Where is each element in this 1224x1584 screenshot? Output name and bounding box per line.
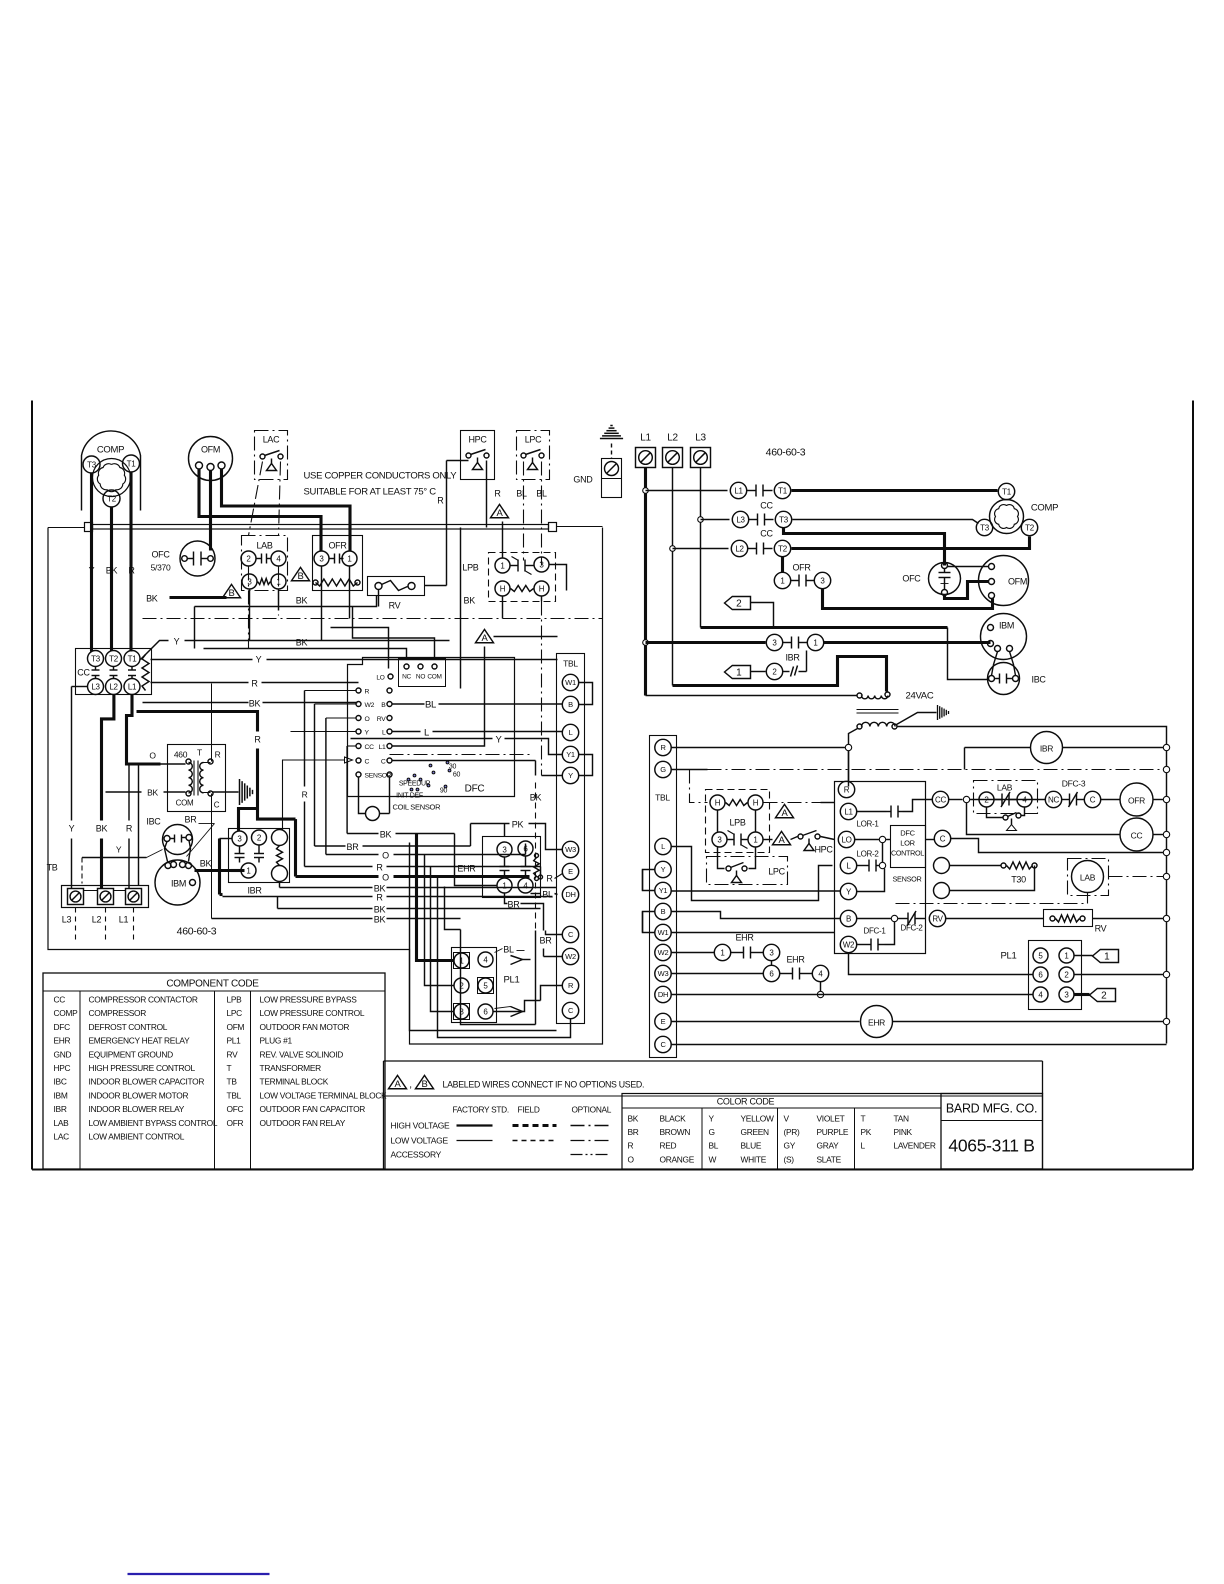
svg-text:LOW PRESSURE CONTROL: LOW PRESSURE CONTROL xyxy=(260,1008,365,1018)
svg-text:IBC: IBC xyxy=(54,1077,67,1087)
OFM motor right xyxy=(979,556,1029,606)
svg-text:BK: BK xyxy=(374,905,386,915)
control Y term xyxy=(840,883,856,899)
svg-text:BARD MFG. CO.: BARD MFG. CO. xyxy=(946,1102,1037,1116)
OFC capacitor right xyxy=(929,563,961,595)
control W2 term xyxy=(840,936,856,952)
COMP T3 right xyxy=(976,519,992,535)
dash-dot horz mid xyxy=(390,754,531,756)
svg-text:DFC-1: DFC-1 xyxy=(863,927,886,936)
svg-text:Y: Y xyxy=(568,771,573,780)
svg-text:R: R xyxy=(844,785,850,794)
svg-text:RV: RV xyxy=(1095,924,1107,934)
wire BL DFC-B to TBL-B xyxy=(393,703,425,705)
svg-text:T2: T2 xyxy=(1025,523,1035,532)
svg-text:T3: T3 xyxy=(779,515,789,524)
wire OFC bot to OFM2 xyxy=(945,582,989,599)
wire LOR2 vert xyxy=(882,843,884,863)
warning triangle B at LAB xyxy=(292,567,310,580)
T30 resistor xyxy=(1001,863,1006,868)
right TBL box xyxy=(650,736,677,1058)
PL1R pin 4 xyxy=(1033,987,1048,1002)
relay coil CC right xyxy=(1120,818,1153,851)
wire secondary left down xyxy=(849,729,858,787)
IBM pin top xyxy=(988,625,994,631)
right LAB box xyxy=(974,781,1038,814)
COMP T1 right xyxy=(998,483,1014,499)
low ambient control LAC box xyxy=(255,431,288,480)
svg-text:T3: T3 xyxy=(980,523,990,532)
svg-text:W2: W2 xyxy=(843,940,855,949)
wire DH row xyxy=(672,994,1033,996)
OFM pins xyxy=(196,462,203,469)
svg-text:BK: BK xyxy=(106,566,118,576)
wire E row xyxy=(672,1021,860,1023)
coil CC right row1 xyxy=(932,791,948,807)
wire band BK3 xyxy=(277,897,279,909)
wire TBL-C bottom xyxy=(570,1018,572,1020)
wire RV right xyxy=(425,585,447,587)
svg-text:TERMINAL BLOCK: TERMINAL BLOCK xyxy=(260,1077,329,1087)
legend high voltage samples xyxy=(457,1124,493,1126)
svg-text:HPC: HPC xyxy=(468,435,487,445)
high voltage bus bar xyxy=(85,523,93,532)
svg-text:OFR: OFR xyxy=(227,1118,244,1128)
wire T3 to COMP xyxy=(793,520,979,524)
wire Y1 row to control xyxy=(672,890,841,892)
svg-text:T2: T2 xyxy=(778,544,788,553)
wire W2 down xyxy=(849,954,894,975)
plug PL1 right box xyxy=(1029,941,1082,1010)
svg-text:OUTDOOR FAN RELAY: OUTDOOR FAN RELAY xyxy=(260,1118,346,1128)
wire LAB1 down xyxy=(278,590,280,611)
CC terminal T1 xyxy=(124,651,140,667)
svg-text:BK: BK xyxy=(464,596,476,606)
svg-text:IBC: IBC xyxy=(1032,675,1047,685)
PL1 pin 3 xyxy=(454,1004,470,1020)
svg-text:BK: BK xyxy=(380,830,392,840)
flag 2 pl1 xyxy=(1075,993,1090,996)
svg-text:L: L xyxy=(424,728,429,739)
svg-text:HIGH PRESSURE CONTROL: HIGH PRESSURE CONTROL xyxy=(89,1063,196,1073)
terminal block TB xyxy=(62,886,149,908)
svg-text:W2: W2 xyxy=(658,948,669,957)
svg-text:COMPONENT CODE: COMPONENT CODE xyxy=(166,979,259,990)
wire BK IBM to IBR xyxy=(195,869,231,872)
svg-text:OUTDOOR FAN CAPACITOR: OUTDOOR FAN CAPACITOR xyxy=(260,1104,366,1114)
wire R vert at 302 xyxy=(304,691,306,787)
TB dashed leads xyxy=(75,908,77,941)
low voltage terminal block TBL box xyxy=(557,654,585,1024)
wire W3 row xyxy=(672,973,764,975)
DFC LOR CONTROL box xyxy=(891,826,926,868)
right LPB box xyxy=(706,790,770,853)
svg-text:DEFROST CONTROL: DEFROST CONTROL xyxy=(89,1022,168,1032)
control B term xyxy=(840,910,856,926)
svg-text:L: L xyxy=(382,729,386,736)
indoor blower capacitor IBC xyxy=(163,825,193,855)
wire C row right xyxy=(672,1044,1167,1046)
svg-text:TBL: TBL xyxy=(227,1090,242,1100)
svg-text:OFC: OFC xyxy=(902,574,921,584)
svg-text:BL: BL xyxy=(503,945,514,955)
contact IBR aux xyxy=(766,663,782,679)
svg-text:RV: RV xyxy=(377,716,386,723)
transformer primary taps xyxy=(186,759,191,764)
svg-text:HPC: HPC xyxy=(54,1063,71,1073)
wire BK upper xyxy=(195,596,377,607)
svg-text:L3: L3 xyxy=(91,682,100,691)
svg-text:H: H xyxy=(500,584,506,593)
svg-text:CC: CC xyxy=(760,501,773,511)
svg-text:C: C xyxy=(940,834,946,843)
svg-text:CONTROL: CONTROL xyxy=(891,849,924,858)
wire LPB drop2 xyxy=(541,597,543,602)
svg-text:LOR: LOR xyxy=(900,839,915,848)
IBM pin small xyxy=(190,880,196,886)
compressor terminal T2 xyxy=(103,490,120,507)
wire BK vertical drop xyxy=(461,930,471,1025)
24V transformer core xyxy=(857,709,899,711)
title block box xyxy=(941,1094,1043,1170)
wire sensor T30 xyxy=(950,865,1002,867)
wire L1 to xfmr xyxy=(646,695,858,697)
svg-text:LO: LO xyxy=(841,835,851,844)
wire band BK1 xyxy=(346,746,348,834)
svg-text:L2: L2 xyxy=(92,915,102,925)
relay coil EHR right xyxy=(861,1006,893,1038)
wire band O2 xyxy=(294,819,297,876)
svg-text:EHR: EHR xyxy=(457,864,476,874)
PL1 pin 6 xyxy=(478,1004,493,1019)
svg-text:A: A xyxy=(782,808,789,819)
PL1R pin 3 xyxy=(1059,987,1074,1002)
transformer T box xyxy=(168,745,226,812)
wire RV left down xyxy=(378,590,380,607)
svg-text:BK: BK xyxy=(200,859,212,869)
svg-text:L1: L1 xyxy=(640,433,651,444)
note triangle A xyxy=(389,1075,407,1088)
IBR terminal 2 xyxy=(252,830,267,845)
component code col dividers xyxy=(79,991,81,1169)
reversing valve RV box xyxy=(368,577,425,596)
contact IBR 3-1 xyxy=(766,634,782,650)
transformer R lead up xyxy=(211,745,213,762)
svg-text:L1: L1 xyxy=(119,915,129,925)
PL1R pin 1 xyxy=(1059,948,1074,963)
indoor blower motor IBM xyxy=(155,860,200,905)
LPB heater zigzag xyxy=(511,586,534,592)
svg-text:460-60-3: 460-60-3 xyxy=(766,447,806,459)
EHR zigzag xyxy=(534,858,540,877)
right LPB 3 xyxy=(712,832,727,847)
svg-text:L2: L2 xyxy=(667,433,678,444)
wire band O1 xyxy=(325,718,327,855)
relay coil OFR right xyxy=(1101,799,1120,801)
svg-text:A: A xyxy=(395,1079,402,1090)
svg-text:R: R xyxy=(302,790,308,800)
wire R from CC coil xyxy=(151,682,249,684)
svg-text:FIELD: FIELD xyxy=(518,1105,540,1115)
svg-text:CC: CC xyxy=(1131,831,1143,841)
svg-text:LAC: LAC xyxy=(263,435,280,445)
LAC switch xyxy=(260,454,265,459)
junction L3 row2 xyxy=(698,517,704,523)
svg-text:GND: GND xyxy=(573,475,593,485)
wire A tri to LPB xyxy=(502,522,504,558)
svg-text:FACTORY STD.: FACTORY STD. xyxy=(453,1105,509,1115)
svg-text:1: 1 xyxy=(1104,952,1110,963)
wire nest 4 xyxy=(431,867,454,1012)
svg-text:5/370: 5/370 xyxy=(151,563,171,573)
RV coil xyxy=(375,583,382,590)
control LO term xyxy=(838,831,854,847)
svg-text:BR: BR xyxy=(185,815,198,825)
svg-text:2: 2 xyxy=(1101,991,1107,1002)
svg-text:COM: COM xyxy=(427,674,441,681)
wire BK to LAB-3 xyxy=(170,596,227,599)
svg-text:Y: Y xyxy=(116,845,122,855)
svg-text:TB: TB xyxy=(227,1077,238,1087)
CC terminal T2 xyxy=(106,651,122,667)
CC terminal L3 xyxy=(88,679,104,695)
compressor COMP scallops xyxy=(97,464,125,492)
svg-text:WHITE: WHITE xyxy=(741,1154,767,1164)
indoor blower relay IBR box xyxy=(229,829,290,883)
svg-text:LPB: LPB xyxy=(462,563,478,573)
svg-text:A: A xyxy=(779,835,786,846)
svg-text:SUITABLE FOR AT LEAST 75° C: SUITABLE FOR AT LEAST 75° C xyxy=(304,487,437,498)
svg-text:DFC: DFC xyxy=(465,784,485,795)
wire A to HPC xyxy=(791,837,798,840)
svg-text:USE COPPER CONDUCTORS ONLY: USE COPPER CONDUCTORS ONLY xyxy=(304,471,458,482)
svg-text:LO: LO xyxy=(376,675,384,682)
wire thick to R drop xyxy=(137,712,258,732)
color code table box xyxy=(622,1094,1043,1170)
svg-text:BLACK: BLACK xyxy=(660,1114,687,1124)
wire W1 row xyxy=(672,932,835,934)
wire Y from CC xyxy=(151,659,253,661)
svg-text:BR: BR xyxy=(508,900,521,910)
PL1 fork top xyxy=(511,956,523,965)
svg-text:TRANSFORMER: TRANSFORMER xyxy=(260,1063,322,1073)
wire band BK4 xyxy=(212,918,373,920)
svg-text:COMP: COMP xyxy=(1031,503,1058,514)
right LPB check contact xyxy=(728,839,735,841)
svg-text:L: L xyxy=(661,842,665,851)
DFC config dots xyxy=(407,778,410,781)
svg-text:EHR: EHR xyxy=(868,1018,885,1028)
LPB check contact xyxy=(511,565,519,567)
svg-text:O: O xyxy=(382,851,389,861)
wire B row to control xyxy=(672,912,841,919)
svg-text:RED: RED xyxy=(660,1141,677,1151)
wire IBR to rail xyxy=(1063,747,1167,749)
PL1R pin 6 xyxy=(1033,967,1048,982)
wire HPC right down xyxy=(486,461,488,528)
ladder top rail xyxy=(898,727,1167,1044)
wire G dash-dot row xyxy=(672,769,708,771)
legend low voltage samples xyxy=(457,1140,493,1142)
svg-text:COMPRESSOR CONTACTOR: COMPRESSOR CONTACTOR xyxy=(89,995,198,1005)
wire L1 contact up xyxy=(903,800,933,812)
wire nest 6 xyxy=(445,887,461,930)
LAB switch below xyxy=(1003,815,1008,820)
svg-text:DFC-3: DFC-3 xyxy=(1062,779,1086,789)
svg-text:CC: CC xyxy=(77,668,90,678)
transformer C lead down xyxy=(211,794,213,917)
contactor pole L2-T2 xyxy=(731,540,747,556)
junction L1 row1 xyxy=(643,488,649,494)
svg-text:O: O xyxy=(628,1154,635,1164)
control C term xyxy=(934,830,950,846)
wire BR below EHR xyxy=(505,894,508,904)
svg-text:R: R xyxy=(660,743,666,752)
svg-text:GY: GY xyxy=(784,1141,796,1151)
svg-text:B: B xyxy=(568,700,573,709)
CC coil zigzag xyxy=(142,655,149,691)
DFC terminal NO xyxy=(418,664,423,669)
svg-text:DH: DH xyxy=(658,990,668,999)
wire Y COMP T3 down xyxy=(90,473,93,652)
svg-text:TAN: TAN xyxy=(894,1114,909,1124)
svg-text:PK: PK xyxy=(512,820,524,830)
svg-text:L3: L3 xyxy=(695,433,706,444)
DFC-3 contact xyxy=(970,799,1046,801)
svg-text:IBM: IBM xyxy=(999,621,1014,631)
wire OFR3 down xyxy=(321,567,323,641)
svg-text:COLOR CODE: COLOR CODE xyxy=(717,1097,775,1107)
svg-text:L3: L3 xyxy=(736,515,745,524)
outdoor fan capacitor OFC xyxy=(180,541,215,576)
svg-text:INIT DEF: INIT DEF xyxy=(396,793,423,800)
svg-text:OFC: OFC xyxy=(227,1104,244,1114)
hatch arrow xyxy=(937,705,939,720)
control L term xyxy=(840,857,856,873)
wire LAB4 down xyxy=(278,567,280,616)
wire R to TB xyxy=(128,764,130,821)
LAB terminal 1 xyxy=(271,574,286,589)
wire band R2 xyxy=(220,893,223,896)
svg-text:LPC: LPC xyxy=(768,867,785,877)
CC terminal T3 xyxy=(88,651,104,667)
svg-text:R: R xyxy=(376,863,383,873)
wire Y loop xyxy=(857,869,885,892)
DFC left pins xyxy=(356,688,361,693)
svg-text:L: L xyxy=(569,728,573,737)
wire OFC to OFM1 xyxy=(948,566,989,568)
wire nest 2 xyxy=(410,843,557,1031)
svg-text:1: 1 xyxy=(736,668,742,679)
wire T2 to OFR1 xyxy=(781,557,784,573)
note triangle B xyxy=(416,1075,434,1088)
wire Y diagonal from T1 xyxy=(141,641,169,660)
svg-text:E: E xyxy=(661,1017,666,1026)
COMP motor right xyxy=(990,500,1024,534)
wire L2 out to TB xyxy=(102,695,114,821)
wire A tri top xyxy=(494,636,558,638)
svg-text:460-60-3: 460-60-3 xyxy=(177,926,217,938)
dash-dot vert mid xyxy=(541,602,543,776)
LAB heater zigzag xyxy=(258,579,271,585)
transformer secondary coil xyxy=(200,763,204,793)
IBM pins bottom xyxy=(988,641,994,647)
right LPB 1 xyxy=(748,832,763,847)
bottom blue rule xyxy=(128,1573,270,1575)
svg-text:EQUIPMENT GROUND: EQUIPMENT GROUND xyxy=(89,1049,174,1059)
svg-text:G: G xyxy=(709,1127,715,1137)
right TBL bracket Y-Y1 xyxy=(643,870,656,891)
svg-text:INDOOR BLOWER CAPACITOR: INDOOR BLOWER CAPACITOR xyxy=(89,1077,205,1087)
IBR zigzag xyxy=(277,846,283,866)
svg-text:IBM: IBM xyxy=(54,1090,68,1100)
svg-text:Y: Y xyxy=(709,1114,715,1124)
right LPB H2 xyxy=(748,795,763,810)
svg-text:EHR: EHR xyxy=(735,933,754,943)
LPB terminal H2 xyxy=(534,581,549,596)
svg-text:C: C xyxy=(365,758,370,765)
OFC plates xyxy=(182,556,188,562)
svg-text:,: , xyxy=(409,1080,411,1091)
svg-text:CC: CC xyxy=(54,995,66,1005)
PL1 pin 4 xyxy=(478,952,493,967)
svg-text:H: H xyxy=(753,798,759,807)
LPC switch xyxy=(521,453,526,458)
svg-text:LPB: LPB xyxy=(227,995,243,1005)
svg-text:L1: L1 xyxy=(844,807,853,816)
transformer O lead xyxy=(161,763,186,765)
svg-text:VIOLET: VIOLET xyxy=(817,1114,845,1124)
svg-text:IBR: IBR xyxy=(247,886,262,896)
wire BK IBR3 drop xyxy=(220,838,232,840)
DFC-1 contact xyxy=(857,944,865,946)
wire HPC left down xyxy=(447,460,469,462)
wire R down to control xyxy=(848,751,850,782)
wire PL1 2 to rail xyxy=(1075,974,1167,976)
svg-text:V: V xyxy=(784,1114,790,1124)
IBR capacitor syms xyxy=(235,853,245,855)
EHR terminal 4 xyxy=(518,878,533,893)
svg-text:DFC: DFC xyxy=(900,829,915,838)
svg-text:R: R xyxy=(546,874,553,884)
wire T1 to COMP xyxy=(792,489,998,492)
flag 2 right xyxy=(725,597,751,610)
DFC right pins xyxy=(387,688,392,693)
right LPB H1 xyxy=(710,795,725,810)
warning tri A row1 xyxy=(776,804,794,817)
svg-text:Y: Y xyxy=(495,735,502,746)
wire IBM feed xyxy=(701,626,774,629)
svg-text:BK: BK xyxy=(147,788,158,798)
junction L2 row3 xyxy=(670,546,676,552)
compressor contactor CC box xyxy=(76,649,152,695)
contactor pole L3-T3 xyxy=(732,511,748,527)
svg-text:LAB: LAB xyxy=(997,783,1013,793)
wire nest 3 xyxy=(425,855,454,986)
svg-text:BK: BK xyxy=(296,638,308,648)
wire T2 to COMP xyxy=(792,537,1030,549)
wire BK dashed drop xyxy=(535,783,537,931)
svg-text:INDOOR BLOWER MOTOR: INDOOR BLOWER MOTOR xyxy=(89,1090,189,1100)
wire R drop cont xyxy=(256,749,259,809)
right LPB heater xyxy=(726,800,748,806)
svg-text:LABELED WIRES CONNECT IF NO OP: LABELED WIRES CONNECT IF NO OPTIONS USED… xyxy=(443,1080,645,1090)
IBC screws xyxy=(164,836,170,842)
TBL terminals xyxy=(562,674,578,690)
svg-text:EHR: EHR xyxy=(54,1036,71,1046)
svg-text:NO: NO xyxy=(416,674,425,681)
wire L1 to contact xyxy=(646,490,728,492)
